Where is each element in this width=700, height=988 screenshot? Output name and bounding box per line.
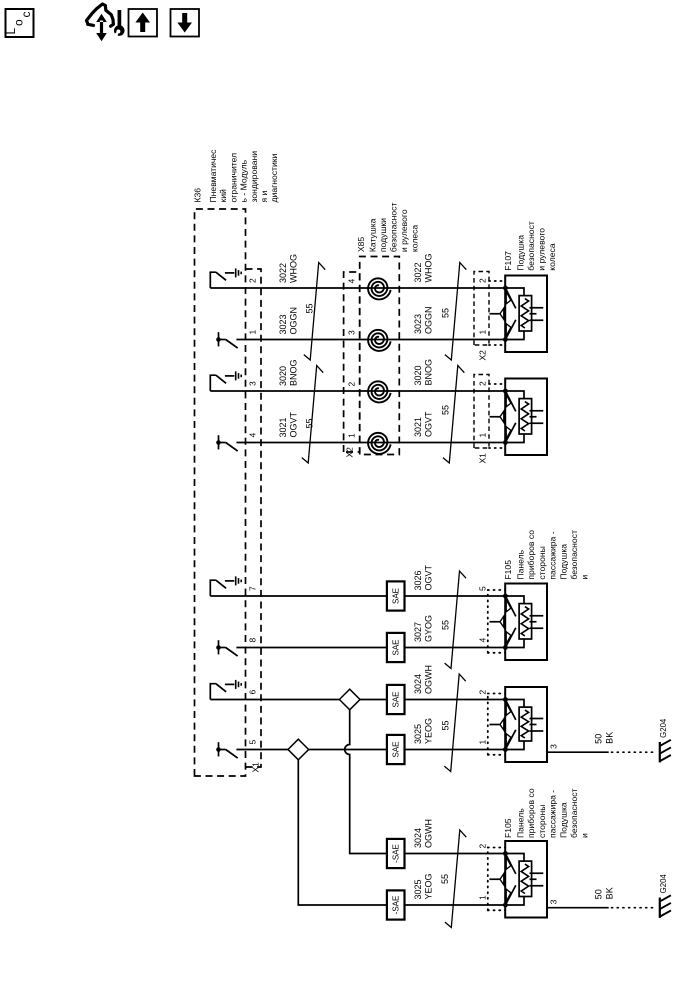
connector X2 dashed strip on X85 bbox=[344, 272, 360, 452]
ground symbol bbox=[235, 268, 237, 277]
resistor zigzag bbox=[521, 710, 528, 738]
terminal box -SAE bbox=[387, 890, 405, 919]
shorting bar triangle bbox=[500, 411, 504, 422]
squib resistor box bbox=[519, 399, 532, 434]
squib driver switch, pin at x=545.5 bbox=[218, 435, 220, 449]
squib driver switch with ground, pin at x=597 bbox=[210, 375, 216, 391]
svg-text:o: o bbox=[12, 19, 26, 26]
deployment loop arrows bbox=[505, 700, 515, 720]
clockspring coil bbox=[368, 330, 391, 351]
ground symbol bbox=[235, 680, 237, 689]
resistor zigzag bbox=[521, 607, 528, 636]
shorting clip bbox=[530, 872, 544, 874]
terminal dots bbox=[503, 594, 508, 599]
terminal loop bbox=[505, 288, 524, 296]
wire pin4 3021 OGVT bbox=[236, 442, 505, 444]
clockspring coil bbox=[368, 381, 391, 402]
harness 55 diagonal (3022/3023 near K36) bbox=[304, 263, 325, 361]
shorting clip bbox=[530, 307, 544, 309]
wire branch 3024 OGWH from splice to bottom F105 (with hop over 3025) bbox=[345, 700, 506, 854]
terminal box SAE bbox=[387, 581, 405, 610]
squib driver switch, pin at x=340.5 bbox=[218, 640, 220, 654]
terminal box SAE bbox=[387, 633, 405, 662]
shorting bar triangle bbox=[500, 719, 504, 730]
X85 dashed box bbox=[360, 257, 400, 455]
shorting bar triangle bbox=[500, 874, 504, 885]
airbag squib F105#3 bbox=[505, 841, 547, 918]
icon down arrow button bbox=[171, 9, 200, 37]
harness 55 diagonal (3020/3021 near F107) bbox=[443, 366, 464, 464]
wire pin8 3027 GYOG bbox=[236, 647, 505, 649]
icon up arrow button bbox=[129, 9, 158, 37]
squib driver switch, pin at x=648.5 bbox=[218, 332, 220, 346]
terminal dots bbox=[503, 286, 508, 291]
ground symbol bbox=[235, 576, 237, 585]
airbag squib F107 X2 bbox=[505, 276, 547, 353]
harness 55 diagonal (3024/3025 bottom) bbox=[445, 830, 466, 928]
harness 55 diagonal (3026/3027) bbox=[445, 571, 466, 669]
airbag squib F105#2 bbox=[505, 687, 547, 762]
clockspring coil bbox=[368, 278, 391, 299]
terminal box SAE bbox=[387, 685, 405, 714]
squib driver switch, pin at x=238.5 bbox=[218, 742, 220, 756]
deployment loop arrows bbox=[505, 391, 515, 411]
dotted connector stubs F107 bbox=[489, 280, 505, 282]
harness 55 diagonal (3024/3025) bbox=[444, 674, 465, 772]
ground G204 symbol bbox=[659, 742, 661, 762]
wire pin7 3026 OGVT bbox=[210, 595, 505, 597]
icon Loc box bbox=[6, 9, 34, 37]
squib resistor box bbox=[519, 707, 532, 741]
dotted connector bracket bbox=[487, 848, 489, 911]
squib resistor box bbox=[519, 861, 532, 896]
terminal dots bbox=[503, 851, 508, 856]
harness 55 diagonal (3022/3023 near F107) bbox=[445, 263, 466, 361]
resistor zigzag bbox=[521, 864, 528, 893]
connector X1 dashed strip on K36 bbox=[246, 269, 262, 767]
resistor zigzag bbox=[521, 299, 528, 328]
squib driver switch with ground, pin at x=700 bbox=[210, 272, 216, 288]
terminal loop bbox=[505, 700, 524, 708]
svg-text:L: L bbox=[4, 28, 18, 35]
squib driver switch with ground, pin at x=288.5 bbox=[210, 684, 216, 700]
terminal dots bbox=[503, 697, 508, 702]
terminal dots bbox=[503, 389, 508, 394]
deployment loop arrows bbox=[505, 854, 515, 874]
squib driver switch with ground, pin at x=392 bbox=[210, 580, 216, 596]
splice diamond bbox=[288, 739, 309, 760]
airbag squib F105#1 bbox=[505, 584, 547, 661]
wire pin6 3024 OGWH bbox=[210, 699, 505, 701]
splice diamond bbox=[339, 689, 360, 710]
wire branch 3025 YEOG from splice to bottom F105 bbox=[298, 750, 505, 906]
ground symbol bbox=[235, 371, 237, 380]
wire dotted to G204 (2) bbox=[612, 907, 657, 909]
terminal box SAE bbox=[387, 735, 405, 764]
squib resistor box bbox=[519, 604, 532, 639]
clockspring coil bbox=[368, 433, 391, 454]
shorting clip bbox=[530, 410, 544, 412]
dotted connector bracket bbox=[487, 694, 489, 755]
terminal loop bbox=[505, 391, 524, 399]
squib resistor box bbox=[519, 296, 532, 331]
wire dotted to G204 bbox=[612, 751, 657, 753]
connector X1 dashed box at F107 bbox=[474, 375, 489, 449]
terminal loop bbox=[505, 596, 524, 604]
connector X2 dashed box at F107 bbox=[474, 272, 489, 346]
wire pin1 3023 OGGN bbox=[236, 339, 505, 341]
wire F105#2 pin3 to G204 ground bbox=[547, 751, 609, 753]
svg-text:c: c bbox=[19, 12, 33, 18]
shorting clip bbox=[530, 718, 544, 720]
ground G204 symbol bbox=[659, 898, 661, 918]
terminal box -SAE bbox=[387, 839, 405, 868]
icon vehicle lift with arrows and wrench bbox=[87, 4, 114, 26]
shorting clip bbox=[530, 615, 544, 617]
module K36 dashed box bbox=[195, 209, 246, 776]
deployment loop arrows bbox=[505, 596, 515, 616]
resistor zigzag bbox=[521, 402, 528, 431]
harness 55 diagonal (3020/3021 near K36) bbox=[302, 366, 323, 464]
shorting bar triangle bbox=[500, 308, 504, 319]
terminal loop bbox=[505, 854, 524, 862]
airbag squib F107 X1 bbox=[505, 379, 547, 456]
wire F105#3 pin3 to G204 ground bbox=[547, 907, 609, 909]
deployment loop arrows bbox=[505, 288, 515, 308]
wire pin2 3022 WHOG bbox=[210, 287, 505, 289]
shorting bar triangle bbox=[500, 616, 504, 627]
wire pin5 3025 YEOG bbox=[236, 749, 505, 751]
dotted connector bracket bbox=[487, 590, 489, 653]
wire pin3 3020 BNOG bbox=[210, 390, 505, 392]
